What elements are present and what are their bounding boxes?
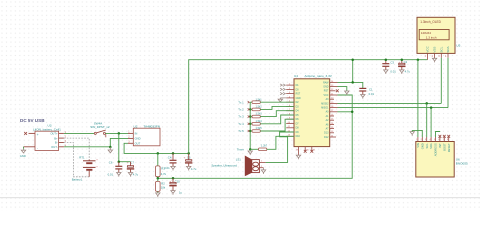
U3 pin 3 B-: [59, 140, 67, 143]
speaker LS1: [211, 156, 259, 175]
OLED pin labels vertical: [426, 45, 451, 52]
no-connect X BNO BOOT: [443, 135, 446, 138]
resistor R6 1.5k row4: [250, 115, 294, 125]
wire switch to U2 IN: [105, 132, 128, 134]
capacitor C3 0.01: [382, 60, 396, 74]
U2 pin 1 IN: [128, 130, 133, 133]
wire B+ dashed to battery: [64, 138, 89, 159]
battery RT1 Battery1: [72, 155, 99, 181]
junction GND net: [109, 146, 112, 149]
LS1 pin 1: [259, 161, 265, 163]
ground under C3: [384, 70, 388, 74]
resistor R1 4.7k: [156, 153, 167, 178]
svg-text:C1: C1: [369, 87, 373, 91]
junction R1 R2: [157, 177, 160, 180]
junction at C6: [118, 160, 121, 163]
resistor R2 10k: [156, 178, 166, 193]
ground under U4 bottom pin: [296, 155, 300, 159]
ground under C2: [400, 70, 404, 74]
resistor R4 1.5k row2: [250, 106, 294, 111]
ground under C7: [128, 173, 132, 177]
svg-text:GND: GND: [20, 154, 26, 158]
switch SW4A SW_DPST_x2: [90, 121, 110, 137]
wire U4 GND right to ground: [338, 87, 347, 91]
svg-text:0.01: 0.01: [390, 70, 396, 74]
ground flag LS1 pin2: [261, 168, 265, 174]
U4 left pin stubs: [286, 85, 294, 136]
OLED pin 2 GND: [432, 53, 435, 58]
U3 left pin to ground: [24, 147, 36, 149]
svg-text:BNO055: BNO055: [456, 162, 468, 166]
net stub Tx1: [248, 101, 250, 103]
svg-text:GND: GND: [296, 98, 301, 100]
U4 bottom pin GND stub: [296, 147, 299, 156]
svg-text:B+: B+: [54, 136, 58, 140]
no-connect X BNO RESET: [447, 135, 450, 138]
U3 left pin no-connect: [24, 132, 35, 135]
OLED pin 3 SCL: [438, 53, 441, 58]
ground flag U4 left GND pin: [278, 98, 286, 102]
svg-text:Timer: Timer: [237, 147, 244, 151]
svg-text:INT: INT: [438, 143, 442, 148]
junction R1 top on 3.3V rail: [157, 152, 160, 155]
svg-text:Tx 5: Tx 5: [238, 129, 244, 133]
wire rail drop to RAW: [352, 60, 354, 83]
ground under C6: [117, 173, 121, 177]
ground under U2: [108, 147, 112, 153]
junction Tx2: [249, 108, 251, 110]
capacitor C4 0.01: [164, 153, 176, 169]
junction C3 on rail: [385, 58, 388, 61]
U4 bottom pin no-connect X: [310, 147, 316, 153]
junction Timer: [249, 148, 251, 150]
wire divider sense to U4: [158, 95, 352, 178]
svg-text:U2: U2: [134, 124, 138, 128]
capacitor C5 4.7u polarized: [184, 153, 197, 170]
svg-text:C6: C6: [109, 160, 113, 164]
resistor R8 1.2k timer row: [250, 136, 294, 150]
wire SCL from U4: [338, 102, 442, 104]
junction RAW C1: [351, 81, 354, 84]
svg-text:1.5k1: 1.5k1: [256, 98, 263, 101]
ground under OLED GND pin: [432, 58, 436, 62]
wire OLED SCL drop: [440, 58, 442, 104]
svg-text:U4: U4: [294, 74, 298, 78]
svg-text:VIN: VIN: [416, 143, 420, 148]
svg-text:GND: GND: [135, 137, 141, 141]
svg-text:1.2k7: 1.2k7: [261, 145, 268, 148]
capacitor C10 1u polarized: [169, 178, 182, 194]
wire SDA from U4: [338, 107, 449, 109]
battery holder U3: [33, 123, 61, 150]
wire RAW to 3.3V rail: [338, 82, 363, 88]
U2 pin 3 OUT: [128, 140, 133, 143]
svg-text:SCL: SCL: [425, 143, 429, 149]
svg-text:4.7u: 4.7u: [405, 70, 411, 74]
svg-text:OUT: OUT: [135, 142, 141, 146]
svg-text:RT1: RT1: [79, 155, 85, 159]
junction Tx3: [249, 115, 251, 117]
svg-text:VCC: VCC: [324, 95, 329, 97]
svg-text:D12: D12: [324, 137, 329, 139]
port flag pin 1: [280, 84, 285, 86]
BNO pin numbers: [416, 139, 449, 141]
junction divider sense: [351, 111, 354, 114]
capacitor C1 0.01: [359, 87, 374, 95]
svg-text:SDA: SDA: [446, 46, 450, 52]
OLED display U5 1.3inch_OLED: [417, 17, 461, 53]
svg-text:LS1: LS1: [236, 158, 241, 162]
U4 left pin numbers: [288, 84, 291, 137]
svg-text:RST: RST: [296, 94, 301, 96]
svg-text:ADDRESS: ADDRESS: [434, 143, 438, 156]
wire input cap rail: [119, 161, 131, 163]
svg-text:IN: IN: [135, 132, 138, 136]
junction Tx5: [249, 130, 251, 132]
U3 pin 4 OUT-: [59, 144, 67, 147]
wire speaker to U4 D9: [266, 132, 294, 162]
junction BAT+: [118, 132, 121, 135]
svg-text:1.5k5: 1.5k5: [256, 127, 263, 130]
svg-text:-: -: [37, 147, 38, 151]
svg-text:1u: 1u: [179, 190, 183, 194]
svg-text:0.01: 0.01: [164, 166, 170, 170]
U4 bottom pin no-connect X: [304, 147, 310, 153]
ground under C4: [171, 166, 175, 170]
svg-text:C4: C4: [168, 155, 172, 159]
wire U2 OUT to 3.3V rail: [124, 143, 189, 153]
svg-text:Tx 3: Tx 3: [238, 115, 244, 119]
U4 right pin stubs: [330, 82, 338, 137]
wire OUT+ to switch: [64, 132, 94, 134]
ground at U4 GND right: [345, 91, 349, 95]
wire A0 stub to divider sense: [338, 111, 353, 113]
svg-text:4.7k: 4.7k: [161, 172, 167, 176]
junction C10 top: [172, 177, 175, 180]
wire U2 GND to ground: [110, 138, 128, 147]
sheet boundary line: [0, 197, 480, 199]
junction Tx4: [249, 123, 251, 125]
svg-text:GND: GND: [323, 87, 328, 89]
svg-text:0.01: 0.01: [369, 92, 375, 96]
BNO pin stubs: [418, 137, 449, 142]
svg-text:RST: RST: [324, 91, 329, 93]
resistor R5 1.5k row3: [250, 111, 294, 118]
svg-text:Arduino_nano_3.3V: Arduino_nano_3.3V: [305, 74, 333, 78]
svg-text:4.7u: 4.7u: [191, 167, 197, 171]
svg-text:SCL: SCL: [439, 46, 443, 52]
net stub Tx5: [248, 130, 250, 132]
svg-text:B-: B-: [55, 141, 58, 145]
net stub Tx4: [248, 123, 250, 125]
svg-text:OUT-: OUT-: [51, 145, 58, 149]
svg-text:GND: GND: [420, 143, 424, 149]
resistor R3 1.5k row1: [250, 98, 294, 103]
OLED pin 4 SDA: [445, 53, 448, 58]
svg-text:Tx 4: Tx 4: [238, 122, 244, 126]
ground under C1: [361, 95, 365, 99]
wire OLED SDA drop: [447, 58, 449, 108]
port flag pin 2: [280, 88, 285, 90]
svg-text:RAW: RAW: [323, 81, 329, 84]
wire BNO GND pin: [412, 130, 422, 137]
svg-text:+: +: [37, 133, 39, 137]
U4 right pin numbers: [331, 81, 334, 138]
port flag pin 3: [280, 92, 285, 94]
resistor R7 1.5k row5: [250, 119, 294, 132]
ground flag BNO GND: [410, 132, 414, 136]
U4 left inner labels: [296, 85, 301, 138]
ground flag under Timer junction: [248, 151, 252, 155]
svg-text:U5: U5: [456, 43, 460, 47]
U3 pin 2 B+: [59, 136, 67, 139]
wire SCL down to BNO: [426, 103, 428, 137]
svg-text:0.01: 0.01: [108, 173, 114, 177]
svg-text:OUT+: OUT+: [50, 132, 58, 136]
ground under C10: [171, 191, 175, 195]
junction SDA: [430, 106, 433, 109]
OLED pin 1 VCC: [425, 53, 428, 59]
wire BNO ADDRESS stub: [436, 132, 441, 138]
svg-text:1.3inch_OLED: 1.3inch_OLED: [420, 20, 441, 24]
capacitor C2 4.7u polarized: [398, 60, 410, 74]
svg-text:4.7u: 4.7u: [133, 173, 139, 177]
svg-text:SDA: SDA: [429, 143, 433, 149]
svg-text:MOSI2: MOSI2: [321, 103, 329, 105]
svg-text:DC 5V USB: DC 5V USB: [20, 118, 45, 123]
no-connect X BNO INT: [439, 135, 442, 138]
wire VIN drop to BNO: [417, 60, 419, 137]
ground GND under U3: [20, 149, 26, 158]
svg-text:1.5k3: 1.5k3: [256, 113, 263, 116]
svg-text:Battery1: Battery1: [72, 177, 83, 181]
svg-text:1.5k2: 1.5k2: [256, 106, 263, 109]
svg-text:VCC: VCC: [426, 45, 430, 52]
svg-text:VSS: VSS: [433, 47, 437, 53]
svg-text:Tx 2: Tx 2: [238, 108, 244, 112]
BNO pin labels vertical: [416, 143, 451, 156]
svg-text:R1: R1: [161, 167, 165, 171]
wire U3 OUT- to ground junction: [64, 146, 110, 148]
net stub Tx2: [248, 108, 250, 110]
junction SCL: [425, 102, 428, 105]
svg-text:RESET: RESET: [447, 143, 451, 152]
svg-text:D10: D10: [296, 136, 301, 138]
junction C5 top / rail end: [187, 152, 190, 155]
wire BAT+ down to input caps: [118, 133, 120, 161]
LS1 pin 2: [259, 166, 263, 168]
svg-text:1.5k4: 1.5k4: [256, 120, 263, 123]
U3 pin 1 OUT+: [59, 131, 67, 134]
svg-text:10k: 10k: [161, 185, 166, 189]
net stub Tx3: [248, 116, 250, 118]
svg-text:Tx 1: Tx 1: [238, 100, 244, 104]
svg-text:128x64: 128x64: [421, 31, 431, 35]
svg-text:Speaker_Ultrasound: Speaker_Ultrasound: [211, 163, 237, 167]
U2 pin 2 GND: [128, 135, 133, 138]
MCU U4 Arduino_nano_3.3V: [294, 74, 333, 147]
capacitor C7 4.7u polarized: [127, 160, 139, 176]
svg-text:C3: C3: [390, 60, 394, 64]
ground under R2: [156, 193, 160, 197]
ground under C5: [187, 166, 191, 170]
svg-text:1.3 inch: 1.3 inch: [426, 35, 437, 39]
IMU U6 BNO055: [416, 142, 468, 178]
wire 3.3V rail up and across top: [189, 60, 428, 154]
svg-text:BOOT: BOOT: [442, 143, 446, 151]
wire SDA down to BNO: [430, 108, 432, 137]
junction C4 top: [172, 152, 175, 155]
wire Tx bus vertical: [249, 102, 251, 149]
regulator U2 TA48033FN: [133, 124, 160, 146]
svg-text:D13: D13: [324, 133, 329, 135]
junction rail at BNO VIN drop: [417, 58, 420, 61]
capacitor C6 0.01: [108, 160, 123, 176]
junction rail at RAW drop: [351, 58, 354, 61]
junction C2 on rail: [401, 58, 404, 61]
svg-text:SW_DPST_x2: SW_DPST_x2: [90, 125, 110, 129]
wire B- dashed to battery: [64, 143, 89, 177]
U4 right inner labels: [321, 81, 329, 139]
svg-text:TA48033FN: TA48033FN: [144, 124, 160, 128]
no-connect X on U4 RST right: [336, 89, 339, 92]
svg-text:MISO1: MISO1: [321, 108, 329, 110]
